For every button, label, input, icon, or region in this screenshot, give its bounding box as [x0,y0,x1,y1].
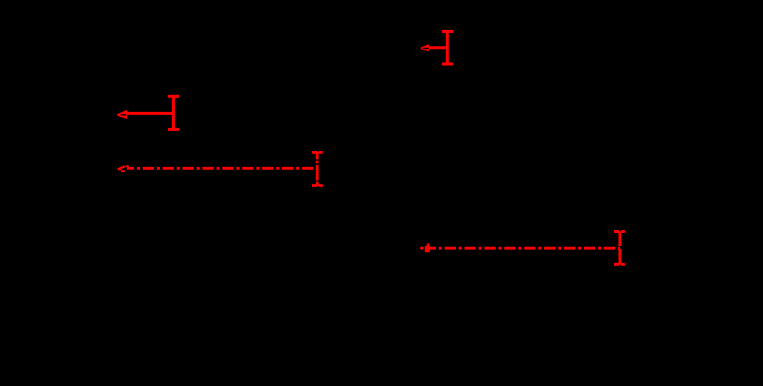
arrowhead fragments [420,247,423,250]
cap bottom [168,128,179,131]
cap bottom [614,263,625,266]
error bar vertical (dash-dot) [316,152,319,185]
cap top [168,95,179,98]
wire: arrow shaft [429,46,447,49]
cap bottom [312,184,323,187]
upper-limit arrow 3 (dash-dot) [118,151,323,187]
cap bottom [442,63,453,66]
wire: dash-dot shaft [426,247,620,250]
cap top [442,30,453,33]
upper-limit arrow 1 (top, solid) [421,31,453,64]
cap top [312,151,323,154]
cap notch top [619,230,621,231]
upper-limit arrow 4 (dash-dot) [420,230,625,266]
wire: dash-dot shaft [127,167,317,170]
cap top [614,230,625,233]
cap notch top [317,150,318,153]
error bar vertical [172,96,175,129]
error bar vertical [446,31,449,64]
arrowhead chevron [117,110,127,119]
error bar vertical (dash-dot) [618,232,621,265]
arrowhead chevron [421,44,429,51]
wire: arrow shaft [127,112,173,115]
cap notch bottom [619,265,621,266]
arrowhead fragments [119,166,124,168]
upper-limit arrow 2 (left, solid) [117,96,179,129]
cap notch bottom [317,186,319,187]
